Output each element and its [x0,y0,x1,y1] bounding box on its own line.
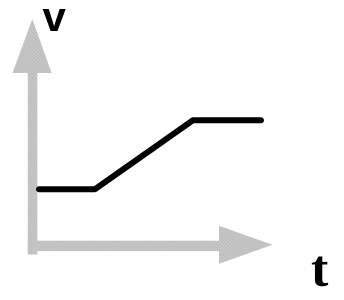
t-axis (horizontal axis arrow, gray dither fill) [28,226,273,264]
t-axis arrowhead [219,226,273,264]
signal waveform (black ramp line) [39,120,261,189]
v-axis (vertical axis arrow, gray dither fill) [13,19,52,255]
t-axis shaft [28,241,220,251]
svg-text:t: t [311,241,329,298]
v-axis shaft [28,71,38,255]
v-axis arrowhead [13,19,52,73]
svg-text:v: v [43,0,67,40]
